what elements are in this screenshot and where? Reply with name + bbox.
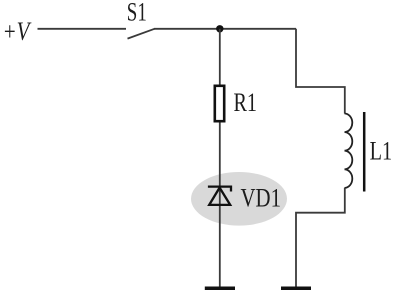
switch S1 (open arm) bbox=[128, 29, 155, 39]
svg-text:R1: R1 bbox=[234, 88, 258, 117]
wire: +V terminal to switch contact bbox=[38, 28, 127, 30]
wire: R1 down through diode to ground bbox=[219, 123, 221, 288]
svg-text:VD1: VD1 bbox=[241, 183, 282, 212]
ground (right) bbox=[281, 286, 311, 290]
ground (left) bbox=[205, 286, 235, 290]
resistor R1 bbox=[215, 86, 224, 121]
svg-text:S1: S1 bbox=[127, 0, 147, 27]
zener diode VD1: cathode bar with bent right end bbox=[208, 187, 231, 192]
svg-text:L1: L1 bbox=[370, 137, 393, 166]
highlight ellipse around VD1 bbox=[191, 172, 287, 226]
wire: L1 bottom to right ground bbox=[296, 188, 345, 287]
inductor L1: four half-turn bumps bbox=[345, 114, 353, 188]
wire: junction to right branch (down, right, down to L1) bbox=[296, 29, 345, 114]
zener diode VD1: triangle (anode, pointing up) bbox=[209, 188, 230, 205]
inductor L1: core bar bbox=[363, 112, 366, 192]
wire: junction down to R1 bbox=[219, 29, 221, 85]
node: junction dot bbox=[216, 25, 223, 32]
wire: switch to top-right corner bbox=[154, 28, 296, 30]
svg-text:+V: +V bbox=[3, 17, 33, 46]
